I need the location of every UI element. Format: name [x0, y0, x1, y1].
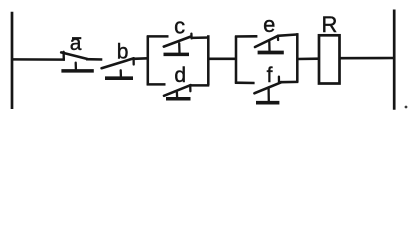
ink speck near bottom right — [405, 106, 408, 109]
wire: e branch top-right segment — [278, 34, 299, 35]
right supply rail — [393, 10, 396, 110]
branch e/f left vertical wire — [235, 36, 238, 83]
wire: c branch top-left segment — [147, 35, 169, 38]
contact f (switch blade, pivot tick, fixed contact T) — [254, 77, 281, 103]
svg-text:f: f — [267, 64, 273, 87]
svg-text:a: a — [70, 32, 82, 55]
label a-bar (negated a) — [70, 32, 82, 55]
wire: d branch bottom-right segment — [190, 84, 209, 87]
wire: branch e/f to coil R — [297, 57, 318, 60]
svg-text:R: R — [321, 12, 337, 37]
wire: contact a-bar to contact b — [86, 58, 102, 61]
wire: c branch top-right segment — [192, 36, 209, 39]
contact a-bar (switch blade, pivot tick, fixed contact T) — [61, 52, 94, 71]
branch e/f right vertical wire — [296, 33, 299, 82]
svg-text:b: b — [117, 40, 129, 63]
contact e (switch blade, pivot tick, fixed contact T) — [255, 36, 284, 53]
wire: branch c/d to branch e/f — [208, 58, 236, 61]
wire: coil R to right rail — [339, 57, 394, 60]
svg-text:d: d — [174, 64, 186, 87]
left supply rail — [11, 12, 14, 109]
contact b (switch blade, pivot tick, fixed contact T) — [102, 58, 134, 78]
wire: d branch bottom-left segment — [147, 83, 166, 86]
coil R (rectangle) — [319, 35, 340, 83]
wire: e branch top-left segment — [235, 35, 258, 38]
wire: left rail to contact a-bar — [12, 58, 65, 61]
svg-text:e: e — [263, 12, 275, 37]
wire: contact b to parallel branch c/d — [134, 57, 148, 60]
wire: f branch bottom-right segment — [280, 81, 298, 84]
contact c (switch blade, pivot tick, fixed contact T) — [164, 34, 192, 55]
branch c/d left vertical wire — [147, 36, 150, 85]
contact d (switch blade, pivot tick, fixed contact T) — [164, 85, 191, 99]
svg-text:c: c — [174, 13, 185, 38]
branch c/d right vertical wire — [207, 35, 210, 85]
wire: f branch bottom-left segment — [235, 81, 255, 84]
